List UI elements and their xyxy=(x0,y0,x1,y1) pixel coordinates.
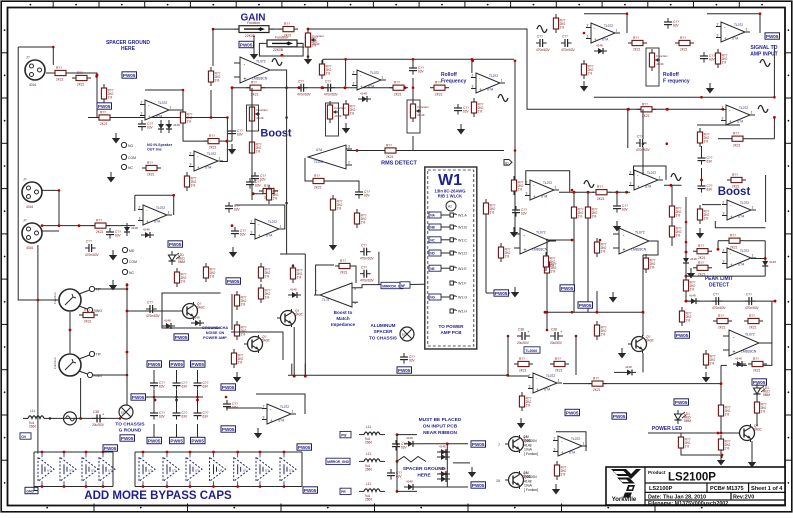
wire capgrid v1 xyxy=(153,390,155,409)
wire capgrid v2 xyxy=(176,390,178,409)
wire fb box U17A xyxy=(508,336,529,376)
svg-text:PCB# M1375: PCB# M1375 xyxy=(710,486,744,492)
op-amp U1A xyxy=(716,22,750,42)
op-amp U19A buf xyxy=(262,404,296,424)
wire U6A out xyxy=(169,109,183,111)
transistor Q3 xyxy=(244,335,271,353)
resistor R121v xyxy=(594,321,606,340)
squiggle U5B out xyxy=(584,181,594,188)
svg-text:Impedance: Impedance xyxy=(331,322,355,327)
net label BP3 xyxy=(303,487,318,493)
transistor Q1 xyxy=(179,302,206,320)
capacitor C40 xyxy=(664,18,680,29)
op-amp U8B peak xyxy=(722,248,756,268)
resistor R120 xyxy=(643,254,655,273)
wire peak filter row xyxy=(686,300,775,302)
wire mid row xyxy=(223,140,232,142)
ground ch2 xyxy=(329,240,337,251)
net label U15A xyxy=(494,290,509,296)
net label PC4 xyxy=(147,437,162,443)
resistor R55 xyxy=(279,22,298,38)
svg-text:3: 3 xyxy=(348,145,350,149)
resistor R6 xyxy=(184,172,196,191)
resistor R117 xyxy=(571,203,583,222)
resistor R107h xyxy=(693,261,712,277)
ground C6P xyxy=(510,227,518,238)
svg-text:W1: W1 xyxy=(438,172,462,189)
capacitor C4B xyxy=(613,202,629,213)
resistor R63 xyxy=(430,81,449,97)
ground T10 xyxy=(618,348,626,359)
capacitor bypass U23 xyxy=(99,453,115,485)
wire Q10 base xyxy=(720,416,722,433)
ground R57 xyxy=(304,54,312,65)
resistor R134 xyxy=(498,243,510,262)
svg-text:Sheet 1 of 4: Sheet 1 of 4 xyxy=(751,486,783,492)
wire bypass rail right B xyxy=(301,452,303,487)
resistor R136 xyxy=(483,199,495,218)
wire jack pins xyxy=(95,288,127,290)
wire U8B fb xyxy=(717,241,719,250)
net label GND2 xyxy=(97,103,112,109)
wire bypass rail bottom B xyxy=(135,486,302,488)
wire output right of U19 xyxy=(648,432,740,434)
svg-text:NC: NC xyxy=(129,271,134,275)
mecca spacer bolt xyxy=(400,327,414,341)
connector pin W1:H xyxy=(450,309,457,313)
pot R60 function xyxy=(249,103,268,125)
ground spacer xyxy=(468,467,476,478)
wire J5 loop xyxy=(18,47,53,65)
svg-text:ADD MORE BYPASS CAPS: ADD MORE BYPASS CAPS xyxy=(84,490,232,502)
op-amp U13A xyxy=(138,205,172,225)
diode D15 xyxy=(158,120,172,133)
capacitor C38 xyxy=(517,328,530,345)
svg-text:W1:B: W1:B xyxy=(458,226,467,230)
wire zd col xyxy=(446,444,448,487)
zener ZD3 xyxy=(437,449,450,460)
resistor R116b xyxy=(594,238,606,257)
svg-text:TL072: TL072 xyxy=(314,160,323,164)
pot R25 function xyxy=(649,49,668,71)
resistor R129 xyxy=(718,435,730,454)
wire boost pin5 xyxy=(702,204,721,206)
resistor R105 xyxy=(725,234,744,250)
connector NC jack 1 xyxy=(121,164,126,169)
capacitor C57 xyxy=(745,293,760,310)
svg-text:5: 5 xyxy=(354,287,356,291)
ground U16A xyxy=(511,287,519,298)
connector pin W1:E xyxy=(429,265,441,271)
ac source J6 xyxy=(64,412,77,425)
resistor R23 xyxy=(581,60,593,79)
diode D7 xyxy=(683,254,697,267)
net label SG1 xyxy=(471,441,486,447)
svg-text:NC: NC xyxy=(128,166,133,170)
diode D11 xyxy=(404,479,417,490)
resistor R135 xyxy=(544,258,556,277)
resistor R8 xyxy=(91,219,110,235)
wire U18 fb xyxy=(556,432,586,451)
wire comparator column C xyxy=(596,291,598,312)
resistor R64b xyxy=(471,98,483,117)
svg-text:Rev:2V0: Rev:2V0 xyxy=(733,494,754,500)
wire fb top U2A xyxy=(584,14,627,33)
wire C63 column xyxy=(412,59,414,64)
ground C44 xyxy=(706,83,714,94)
wire capgrid v3 xyxy=(197,390,199,409)
capacitor C17b xyxy=(173,379,189,390)
resistor R111 xyxy=(588,377,607,393)
wire left column down xyxy=(37,245,39,454)
wire U6 fb top xyxy=(145,90,183,110)
inductor L204 xyxy=(23,409,49,428)
connector J5 XLR xyxy=(25,56,45,88)
resistor R106h xyxy=(693,244,712,260)
wire U19 box xyxy=(256,394,305,414)
wire gain top xyxy=(213,28,239,30)
transistor Q2 xyxy=(277,309,304,327)
squiggle U10A out xyxy=(272,59,282,66)
connector COM jack 1 xyxy=(121,154,126,159)
resistor R123v xyxy=(669,202,681,221)
svg-text:W1:G: W1:G xyxy=(458,296,467,300)
capacitor bypass U24 xyxy=(139,453,155,485)
ground R5A xyxy=(233,372,241,383)
wire gain output bus xyxy=(232,87,405,89)
capacitor C15 xyxy=(150,409,166,420)
connector J4 jack xyxy=(53,351,102,378)
resistor R103 xyxy=(637,102,656,118)
wire U14 fb top xyxy=(235,205,285,229)
connector NC jack xyxy=(122,269,127,274)
connector pin W1:C xyxy=(429,237,441,243)
net label BP0 xyxy=(103,445,118,451)
resistor R118h xyxy=(744,314,763,330)
net label PW05b xyxy=(226,278,241,284)
svg-text:Date: Thu Jan 28, 2010: Date: Thu Jan 28, 2010 xyxy=(648,494,706,500)
connector pin W1:G xyxy=(429,294,441,300)
title block frame xyxy=(606,467,785,505)
svg-text:NG: NG xyxy=(430,296,435,300)
capacitor C7a xyxy=(400,353,416,364)
wire U3A fb xyxy=(697,124,740,126)
resistor R10 xyxy=(101,84,113,103)
note spacer leader xyxy=(397,457,426,463)
wire T10 emitter diode xyxy=(642,353,644,372)
net label CH1 xyxy=(20,433,31,439)
op-amp U2A xyxy=(586,23,620,43)
ferrite A2 xyxy=(446,201,456,211)
diode D9 xyxy=(733,356,746,367)
diode D16b xyxy=(166,120,180,133)
wire Q10 collector xyxy=(759,343,772,365)
capacitor C16b xyxy=(173,409,189,420)
resistor R121 xyxy=(381,144,400,160)
zener ZD1 xyxy=(191,315,204,326)
svg-text:ALUMINUM: ALUMINUM xyxy=(370,323,395,328)
svg-text:F requency: F requency xyxy=(663,79,690,85)
capacitor C16 xyxy=(138,120,154,131)
svg-text:W1:E: W1:E xyxy=(458,267,467,271)
svg-text:NEAR RIBBON: NEAR RIBBON xyxy=(423,430,457,436)
resistor R102a xyxy=(715,49,727,68)
svg-text:PW: PW xyxy=(341,433,346,437)
wire U7B out xyxy=(664,184,682,186)
wire U13 fb xyxy=(134,195,136,211)
net label PR06 xyxy=(675,332,690,338)
capacitor C1u xyxy=(246,178,262,189)
resistor R24 xyxy=(628,36,647,52)
svg-text:LS2100P: LS2100P xyxy=(668,472,716,484)
connector pin W1:A xyxy=(429,212,441,218)
capacitor bypass U27 xyxy=(210,453,226,485)
ground Q10 right xyxy=(748,457,756,468)
net label L3 xyxy=(340,488,351,494)
wire jack pins2 xyxy=(92,374,127,376)
resistor R112v xyxy=(519,392,531,411)
op-amp U18A xyxy=(553,436,587,456)
svg-text:NA: NA xyxy=(430,214,435,218)
wire U16A out xyxy=(546,239,572,241)
ground input filter xyxy=(112,133,120,144)
squiggle U12A out xyxy=(498,95,508,102)
resistor R110 xyxy=(51,66,70,82)
ground R59 xyxy=(342,123,350,134)
capacitor C18b xyxy=(194,409,210,420)
ground C48 xyxy=(457,124,465,135)
op-amp U4A xyxy=(189,151,223,171)
op-amp U9B xyxy=(723,330,765,356)
wire bypass rail left A xyxy=(33,452,35,487)
wire comparator column B xyxy=(587,192,589,312)
resistor R20h xyxy=(204,134,223,150)
wire impedance row xyxy=(288,374,508,376)
svg-text:Boost: Boost xyxy=(260,128,292,140)
wire U7B fb xyxy=(634,166,667,180)
svg-text:NO IN-Speaker: NO IN-Speaker xyxy=(147,143,173,147)
wire inductor col xyxy=(396,435,398,492)
wire top rail xyxy=(323,58,514,60)
mecca chassis bolt xyxy=(119,405,133,419)
pot box R25 xyxy=(646,48,659,86)
wire capgrid tops xyxy=(153,370,155,379)
capacitor bypass U25 xyxy=(163,453,179,485)
wire cap grid bus xyxy=(131,396,203,398)
net label C30a xyxy=(221,384,236,390)
connector W1 box xyxy=(425,167,477,349)
pot R3 gain xyxy=(262,35,302,52)
svg-text:NC: NC xyxy=(430,238,435,242)
wire ind right xyxy=(397,434,417,436)
net label PC6 xyxy=(191,437,206,443)
net label PW08 xyxy=(578,302,593,308)
pot R2 gain xyxy=(234,21,274,38)
resistor R106 xyxy=(174,268,186,287)
wire xlr input bus xyxy=(42,225,135,227)
resistor R104v xyxy=(697,128,709,147)
net label TL2066 xyxy=(524,347,540,353)
resistor R119v xyxy=(703,350,715,369)
net label LD_top xyxy=(674,399,689,405)
wire jack column xyxy=(126,283,128,405)
op-amp U7B xyxy=(629,170,663,190)
resistor R13 xyxy=(95,111,114,127)
capacitor bypass U22 xyxy=(82,453,98,485)
inductor L13 xyxy=(359,482,385,501)
wire led bottom xyxy=(681,449,722,458)
svg-text:COM: COM xyxy=(128,156,136,160)
svg-text:Yorkville: Yorkville xyxy=(612,497,637,503)
wire J2 to bus xyxy=(42,230,59,232)
wire peak limit column xyxy=(685,197,687,301)
svg-text:W1:A: W1:A xyxy=(458,214,467,218)
svg-text:OUT line: OUT line xyxy=(147,148,162,152)
capacitor C37b xyxy=(360,265,375,282)
capacitor C62 xyxy=(324,79,339,96)
op-amp U17A comp xyxy=(613,228,655,254)
svg-text:PR: PR xyxy=(341,490,346,494)
led LED1 xyxy=(169,251,186,265)
wire right filter column xyxy=(771,302,773,343)
wire rms detect row xyxy=(347,150,504,152)
wire boost fb xyxy=(715,221,765,228)
svg-text:7: 7 xyxy=(498,443,500,447)
resistor R58b xyxy=(335,259,354,275)
wire pot box down xyxy=(412,136,414,151)
ground MD xyxy=(109,250,117,261)
resistor R112b xyxy=(748,357,767,373)
svg-text:NOISE ON: NOISE ON xyxy=(206,331,225,335)
capacitor bypass U29 xyxy=(256,453,272,485)
net label PR2 xyxy=(612,413,627,419)
capacitor C44 xyxy=(700,52,716,63)
connector pin W1:F xyxy=(450,281,457,285)
svg-text:Filename: M1375V000usch2002: Filename: M1375V000usch2002 xyxy=(648,501,728,507)
connector J3 jack xyxy=(53,286,102,313)
wire U13 fb top xyxy=(135,195,174,215)
wire netbox to W1F xyxy=(403,283,450,286)
diode D8 xyxy=(687,294,700,305)
transistor Q6 pair xyxy=(505,471,532,489)
capacitor C17 xyxy=(106,228,122,239)
ground C01 xyxy=(229,247,237,258)
resistor R107 xyxy=(180,108,192,127)
svg-text:LS2100P: LS2100P xyxy=(649,486,673,492)
wire U20A out up xyxy=(358,285,381,288)
capacitor C63 xyxy=(409,64,425,75)
diode D20 xyxy=(288,287,301,298)
wire boost fb column xyxy=(765,175,767,222)
net label PC5 xyxy=(170,437,185,443)
resistor R128 xyxy=(718,401,730,420)
capacitor C01 xyxy=(231,227,247,238)
wire impedance col A xyxy=(304,254,306,376)
connector J1 XLR xyxy=(22,178,42,210)
resistor R102 feedback xyxy=(728,132,747,148)
wire chassis row xyxy=(49,417,120,419)
wire R12 to bus xyxy=(210,90,212,118)
svg-text:CH: CH xyxy=(21,435,26,439)
wire jack2 to chassis xyxy=(80,378,82,418)
svg-text:[ Funtion]: [ Funtion] xyxy=(524,488,538,492)
wire boost ladder xyxy=(251,88,253,200)
pot R64 function xyxy=(410,100,429,122)
resistor R130 xyxy=(754,398,766,417)
capacitor C42 xyxy=(536,35,551,52)
wire bypass rail bottom A xyxy=(34,486,113,488)
net label BP2 xyxy=(297,444,312,450)
wire J5 output xyxy=(46,73,97,118)
op-amp U16A xyxy=(514,228,556,254)
svg-text:NE: NE xyxy=(430,267,434,271)
pot R60b xyxy=(327,101,346,123)
wire transistor row xyxy=(545,311,643,313)
net label EXT01 xyxy=(765,33,780,39)
svg-text:COM: COM xyxy=(129,260,137,264)
capacitor C30 xyxy=(223,400,239,411)
svg-text:RMS DETECT: RMS DETECT xyxy=(381,161,417,167)
wire U5B out xyxy=(559,191,594,193)
resistor R108 xyxy=(697,205,709,224)
wire C42 column xyxy=(627,109,629,148)
capacitor C36b xyxy=(360,243,375,260)
svg-text:AMP PCB: AMP PCB xyxy=(440,330,462,335)
wire C43 column xyxy=(642,109,644,139)
wire U8B out xyxy=(751,258,765,260)
svg-text:SIGNAL TO: SIGNAL TO xyxy=(750,45,777,51)
resistor R12 xyxy=(208,67,220,86)
wire J1 junction xyxy=(42,190,59,225)
svg-text:NB: NB xyxy=(430,226,435,230)
resistor R62 xyxy=(389,81,408,97)
wire bypass rail top A xyxy=(34,451,113,453)
svg-text:W1:D: W1:D xyxy=(458,252,467,256)
wire U16A fb col xyxy=(485,218,487,293)
ground R112 xyxy=(517,418,525,429)
wire transistor box xyxy=(231,294,233,330)
wire D11 right xyxy=(417,486,468,488)
ground U8B pin3 xyxy=(687,268,695,279)
op-amp U4B boost xyxy=(722,200,756,220)
svg-text:TO CHASSIS: TO CHASSIS xyxy=(115,422,145,428)
ground NC1 xyxy=(107,172,115,183)
resistor R30v xyxy=(266,185,278,204)
resistor R140 xyxy=(554,461,566,480)
svg-text:HERE: HERE xyxy=(121,46,136,52)
wire R130 down xyxy=(756,413,758,426)
wire out row U17 xyxy=(563,383,721,385)
wire rms fb xyxy=(305,158,309,181)
resistor R148 xyxy=(678,433,690,452)
svg-text:GND: GND xyxy=(26,489,34,493)
resistor R116v xyxy=(683,276,695,295)
resistor R124v xyxy=(669,222,681,241)
resistor R101 xyxy=(258,263,270,282)
wire ladder low xyxy=(252,186,263,194)
svg-text:G ROUND: G ROUND xyxy=(119,428,142,434)
wire ID column xyxy=(514,61,516,235)
diode D6 xyxy=(762,257,776,270)
op-amp U5B xyxy=(525,180,559,200)
net label PW07 xyxy=(560,285,575,291)
svg-text:TO CHASSIS: TO CHASSIS xyxy=(369,336,397,341)
resistor R137 xyxy=(511,176,523,195)
capacitor C18 xyxy=(85,240,100,257)
resistor R105v xyxy=(234,291,246,310)
resistor R7h xyxy=(142,161,161,177)
resistor R104 xyxy=(203,263,215,282)
